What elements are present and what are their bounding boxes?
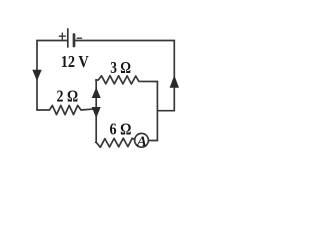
svg-text:2 Ω: 2 Ω <box>57 86 79 105</box>
svg-text:12 V: 12 V <box>61 52 90 71</box>
svg-text:3 Ω: 3 Ω <box>110 58 131 77</box>
svg-text:6 Ω: 6 Ω <box>110 120 132 139</box>
svg-text:A: A <box>136 134 147 150</box>
